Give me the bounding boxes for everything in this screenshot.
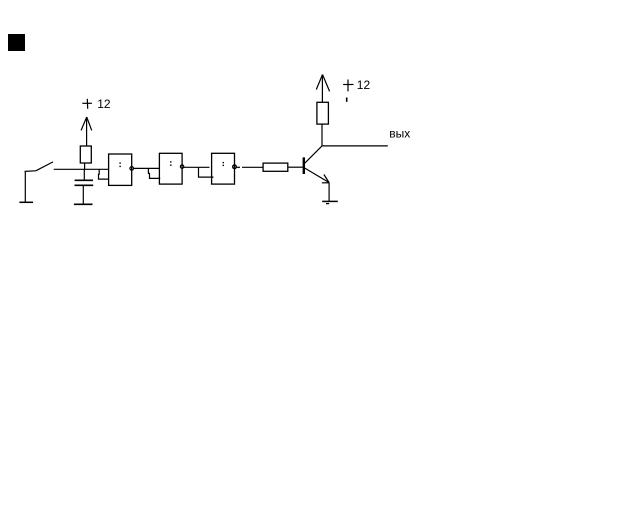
wire: U2 input step [148,168,160,178]
power label +12 (right) [343,80,353,92]
inverter U3 [212,153,237,184]
inverter U2 [159,153,183,184]
ground (emitter) [322,201,338,203]
wire: R2 to base [288,166,303,168]
power arrow (left) [81,117,92,130]
scan artifact square [8,34,25,51]
resistor R2 [263,163,288,171]
label вых [389,127,410,141]
resistor R3 [317,102,329,124]
transistor Q1 [303,146,329,183]
capacitor C1 [75,180,94,185]
power arrow (right) [316,75,329,92]
wire: U1 output to U2 [134,167,160,169]
wire: capacitor to ground [82,185,84,204]
switch S1 [25,162,53,172]
wire: +12 to R1 [86,117,88,146]
ground (switch) [19,201,33,203]
power label +12 (left) [82,99,92,109]
wire: U3 output segment [237,166,240,168]
wire: collector junction vertical [321,124,323,146]
wire: emitter to ground [328,183,330,202]
wire: U1 input step [99,170,109,180]
wire: switch to ground [24,171,26,202]
stray mark under +12 [346,98,348,102]
wire: R3 to +12 [321,75,323,103]
svg-text:12: 12 [357,78,371,92]
wire: to base resistor [242,166,263,168]
wire: node to capacitor [83,170,85,181]
svg-text:12: 12 [97,97,111,111]
inverter U1 [109,154,134,185]
resistor R1 [80,146,91,163]
ground (capacitor) [74,203,93,205]
wire: main horizontal node [54,168,109,170]
svg-text:вых: вых [389,127,410,141]
wire: output line [322,145,388,147]
wire: U2 output toward U3 [184,166,210,168]
wire: R1 to main node [84,163,86,170]
wire: U3 input step [199,167,214,177]
